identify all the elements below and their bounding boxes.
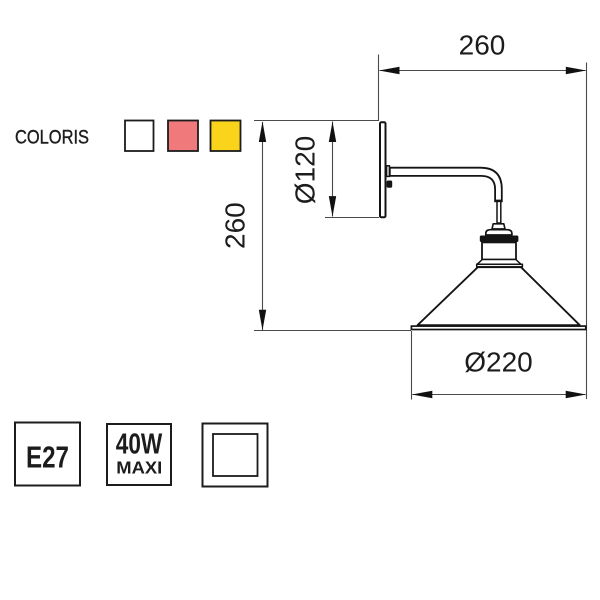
class II insulation box inner square [213, 434, 258, 476]
dimension line diameter120 (vertical) [332, 122, 334, 217]
svg-text:MAXI: MAXI [116, 458, 162, 478]
stem (narrow tube) [497, 201, 501, 223]
color swatch white [125, 121, 154, 152]
extension line top-right vertical (shade rim right) [586, 63, 588, 400]
class II insulation box outer [203, 424, 268, 487]
svg-text:COLORIS: COLORIS [15, 127, 89, 148]
wall plate [380, 122, 386, 217]
svg-text:260: 260 [220, 202, 251, 249]
color swatch yellow [211, 121, 241, 152]
arm flange [387, 166, 390, 177]
svg-text:Ø220: Ø220 [464, 347, 533, 378]
socket body [482, 242, 516, 259]
arrow left top260 [379, 67, 400, 74]
arrow left dia220 [412, 391, 433, 398]
socket dome [486, 230, 512, 235]
color swatch red [168, 121, 198, 152]
arrow right top260 [566, 67, 587, 74]
arrow up left260 [259, 122, 266, 143]
arrow right dia220 [566, 391, 587, 398]
dimension line dia220 [413, 394, 586, 396]
arrow up dia120 [329, 122, 336, 143]
socket skirt [477, 260, 521, 265]
extension line bottom dia120 [325, 217, 379, 219]
socket black band [480, 236, 519, 243]
extension line dia220 left [411, 331, 413, 400]
socket collar (small trapezoid) [492, 224, 505, 229]
extension line top shared (y=120.5 from 260-dim to wall plate) [254, 120, 379, 122]
svg-text:Ø120: Ø120 [290, 136, 321, 205]
arm tube (horizontal with bend to vertical) [390, 168, 502, 201]
svg-text:260: 260 [459, 29, 506, 60]
arrow down dia120 [329, 196, 336, 217]
E27 box [15, 423, 80, 486]
dimension line top 260 (horizontal) [380, 70, 586, 72]
arrow down left260 [259, 310, 266, 331]
cone shade [418, 267, 580, 325]
socket base ring [477, 264, 523, 267]
svg-text:40W: 40W [116, 429, 163, 461]
stem step line [494, 200, 503, 202]
40W MAXI box [107, 424, 171, 485]
dimension line left 260 (vertical) [262, 122, 264, 330]
shade rim [411, 326, 585, 329]
svg-text:E27: E27 [26, 440, 69, 475]
extension line top-left vertical (above wall plate) [378, 55, 380, 122]
set screw (black knob) [387, 181, 393, 188]
extension line bottom of left 260 dim (to shade rim) [254, 330, 411, 332]
